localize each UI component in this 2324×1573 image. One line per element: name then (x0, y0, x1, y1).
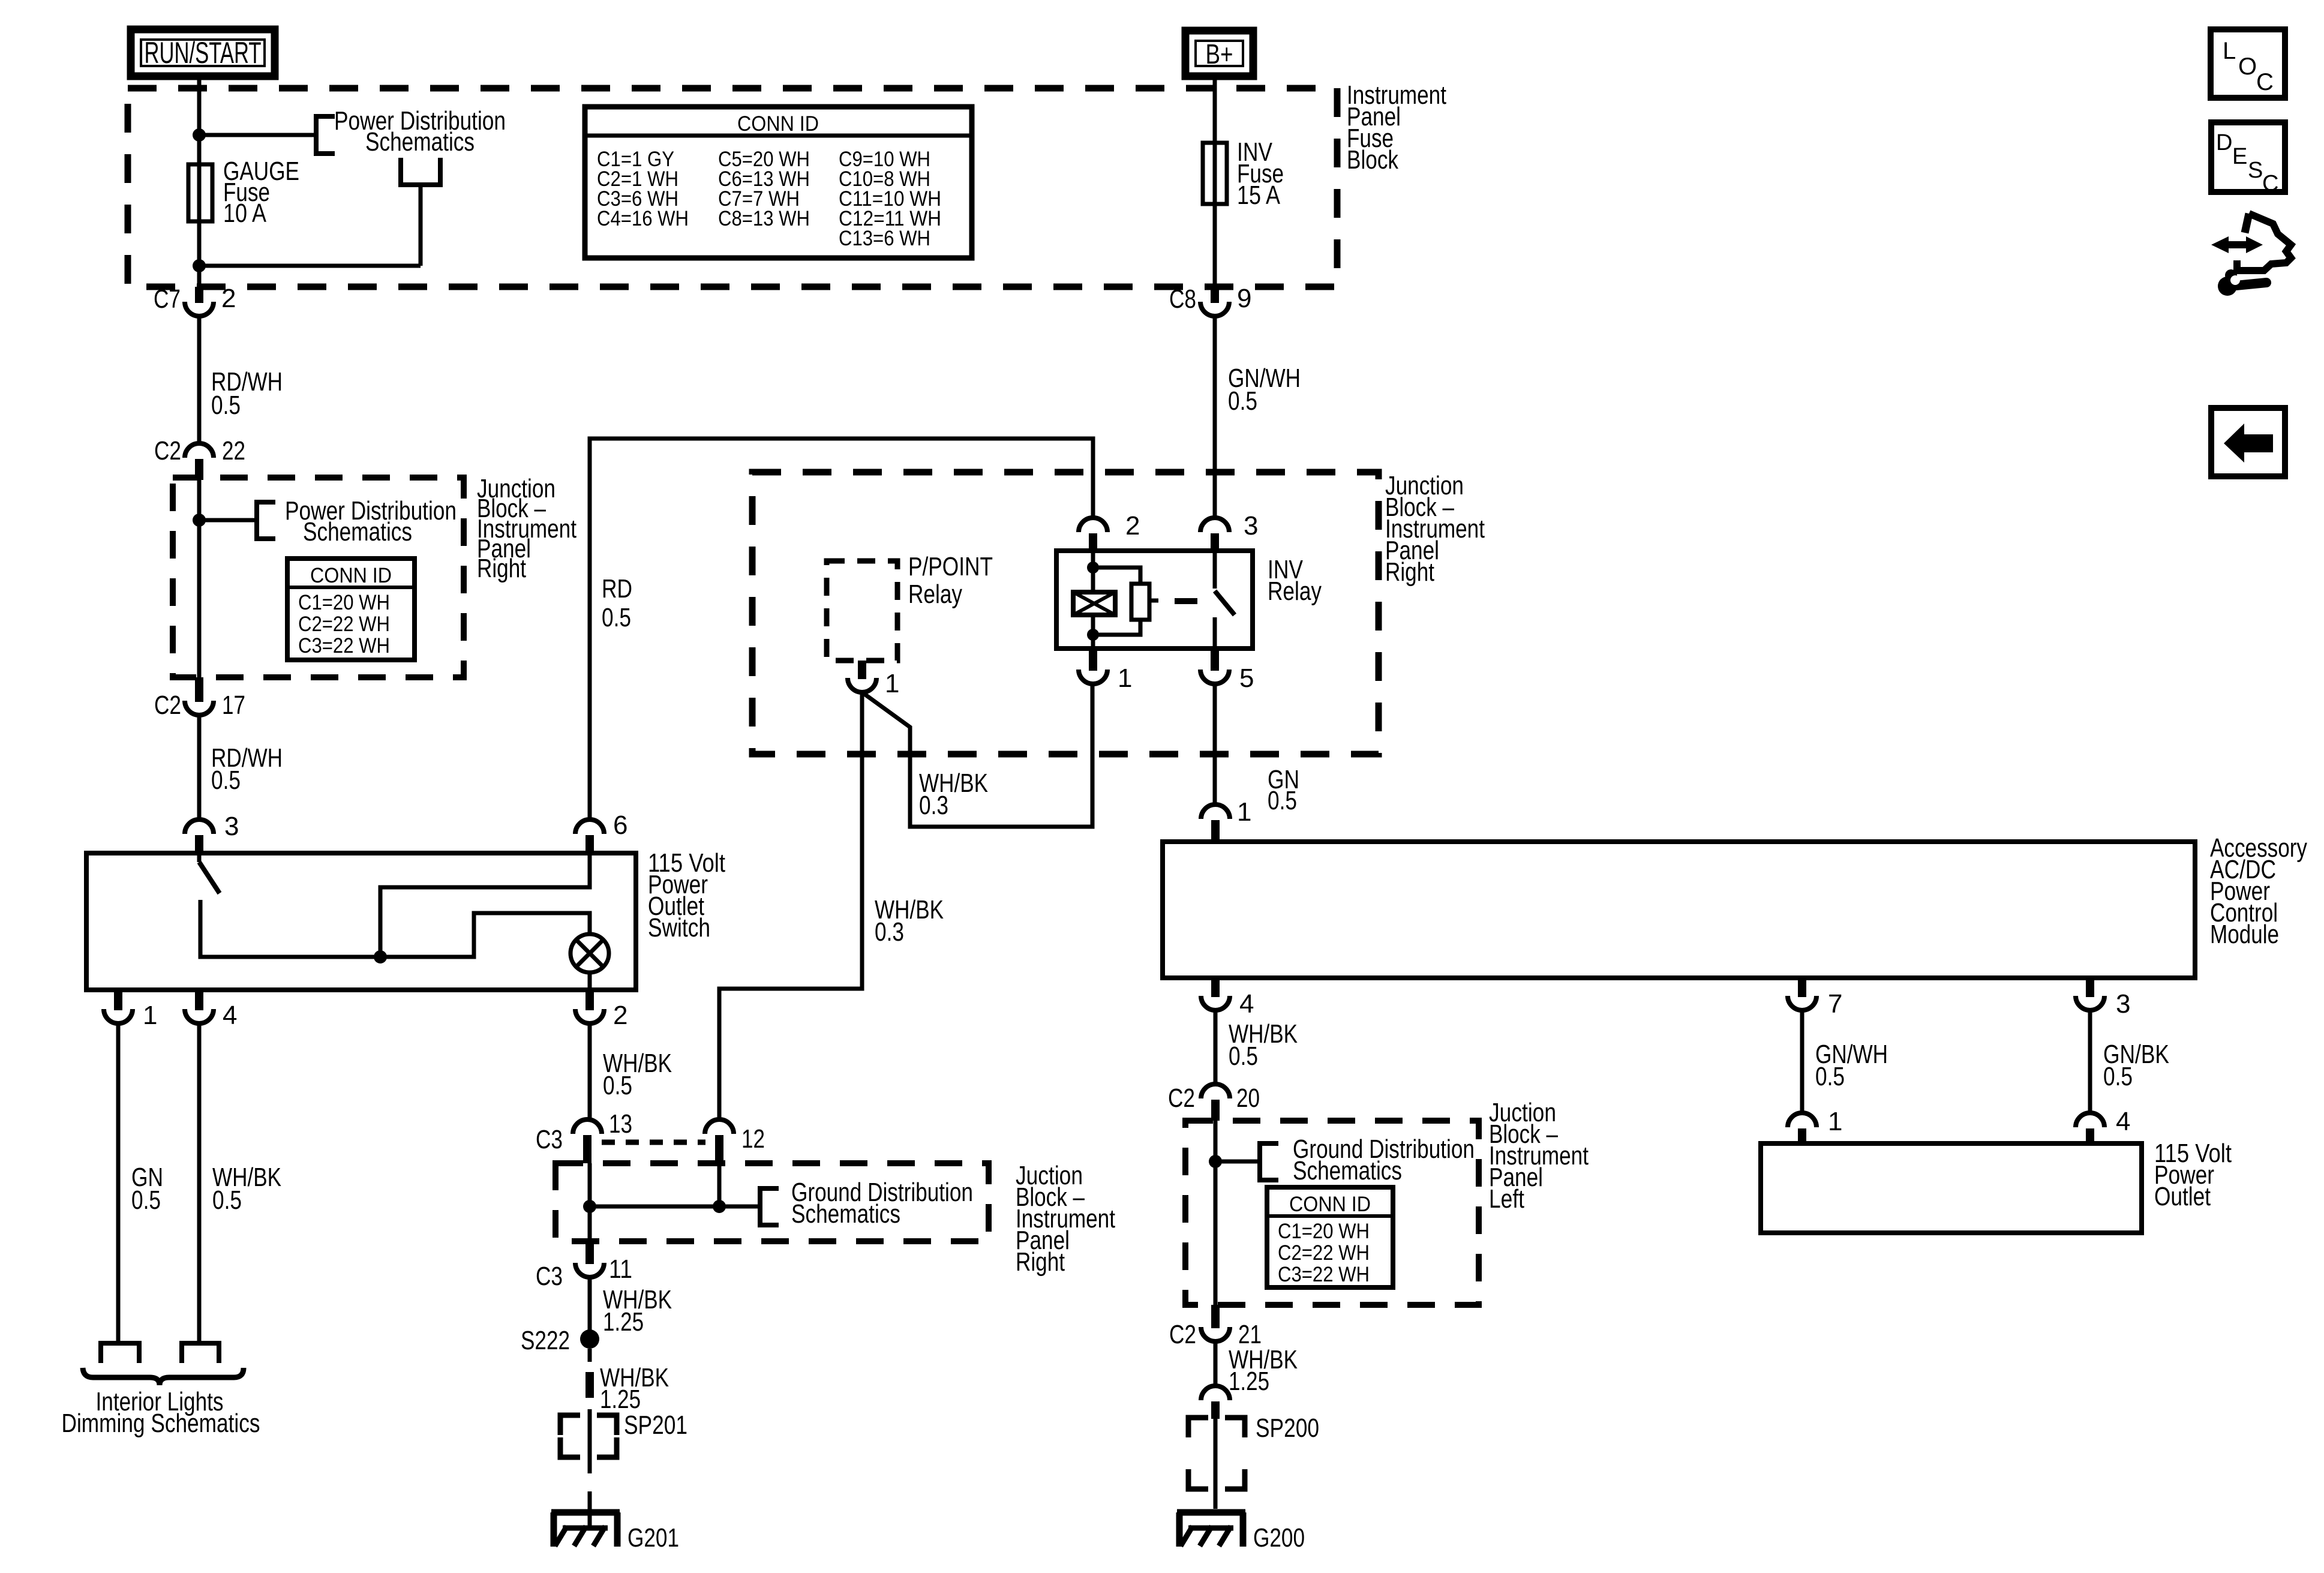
svg-text:S: S (2248, 158, 2263, 183)
svg-text:D: D (2216, 130, 2232, 155)
svg-text:1: 1 (885, 669, 899, 698)
connector C2 pin 22 (185, 443, 214, 480)
icon LOC (2211, 29, 2285, 98)
svg-text:12: 12 (741, 1124, 765, 1154)
wire node to pin 6 (380, 853, 590, 957)
svg-text:0.3: 0.3 (919, 791, 948, 820)
connector pin 4 (outlet) (2076, 1113, 2104, 1143)
svg-text:C2: C2 (154, 691, 181, 720)
tag bracket power distribution (257, 502, 275, 539)
off-page terminal (pin4 wire) (182, 1343, 219, 1363)
node junction (193, 514, 206, 527)
junction block - instrument panel right (dashed) (173, 478, 464, 677)
svg-text:3: 3 (224, 812, 239, 841)
svg-text:Right: Right (1016, 1247, 1065, 1277)
label GAUGE Fuse 10 A (223, 157, 299, 228)
junction block - instrument panel right (ground dist, dashed) (556, 1163, 989, 1241)
label Junction Block - Instrument Panel Right (477, 474, 577, 583)
svg-text:C1=20 WH: C1=20 WH (1278, 1220, 1370, 1243)
connector pin 12 (705, 1119, 734, 1163)
svg-text:SP201: SP201 (624, 1410, 687, 1440)
wire WH/BK 1.25 (C2-21 to SP200) (1214, 1341, 1218, 1386)
junction block - instrument panel right (relays, dashed) (752, 472, 1379, 754)
junction block - instrument panel left (dashed) (1185, 1121, 1479, 1305)
svg-text:RD: RD (602, 574, 632, 604)
svg-text:0.5: 0.5 (211, 766, 241, 795)
svg-text:0.5: 0.5 (1815, 1062, 1845, 1091)
svg-text:C2: C2 (154, 436, 181, 466)
svg-text:C13=6 WH: C13=6 WH (839, 227, 930, 250)
wire GN 0.5 (relay pin 5 to module pin 1) (1213, 684, 1217, 804)
connector pin 1 (P/POINT relay) (848, 661, 876, 692)
svg-text:Schematics: Schematics (365, 127, 475, 157)
ground G200 (1177, 1512, 1305, 1553)
svg-text:4: 4 (223, 1001, 237, 1030)
svg-text:6: 6 (613, 810, 627, 840)
connector pin 1 (INV relay coil-) (1079, 649, 1107, 684)
node ground dist (pin12 wire) (713, 1200, 726, 1213)
connector C3 pin 13 (573, 1119, 602, 1163)
svg-text:5: 5 (1239, 664, 1254, 693)
svg-text:C8: C8 (1169, 284, 1196, 314)
svg-text:SP200: SP200 (1256, 1413, 1319, 1443)
label Power Distribution Schematics (334, 106, 506, 157)
wire B+ to INV fuse (1213, 76, 1217, 287)
splice pack SP200 (1188, 1418, 1245, 1489)
svg-text:C2: C2 (1168, 1083, 1195, 1113)
wire RD 0.5 (pin6 up, across to relay pin 2) (590, 439, 1093, 819)
connector pin 2 of switch (575, 990, 604, 1023)
connector pin 2 (INV relay coil) (1079, 518, 1107, 551)
svg-text:CONN ID: CONN ID (1289, 1193, 1371, 1216)
svg-text:CONN ID: CONN ID (737, 112, 819, 136)
tag bracket ground distribution (760, 1188, 779, 1225)
connector pin 4 (module) (1201, 978, 1230, 1010)
wire tag to below-fuse node (199, 185, 421, 266)
connector pin 3 (INV relay switch) (1200, 518, 1229, 551)
svg-text:0.5: 0.5 (603, 1071, 632, 1100)
svg-text:C4=16 WH: C4=16 WH (597, 207, 689, 230)
connector pin 7 (module) (1788, 978, 1816, 1010)
svg-text:C1=20 WH: C1=20 WH (298, 591, 390, 614)
parallel resistor (1093, 568, 1158, 635)
svg-text:0.5: 0.5 (212, 1185, 242, 1215)
svg-text:Dimming Schematics: Dimming Schematics (62, 1409, 260, 1438)
115 Volt Power Outlet box (1761, 1143, 2142, 1233)
wire SP201 to G201 (588, 1491, 592, 1527)
wire to power distribution tag (199, 133, 316, 137)
CONN ID table (fuse block) (585, 107, 972, 258)
svg-text:0.5: 0.5 (131, 1185, 161, 1215)
CONN ID table (junction block left) (1267, 1187, 1393, 1287)
svg-text:Right: Right (477, 554, 526, 583)
wire fuse to C7 (197, 266, 202, 287)
brace interior lights (83, 1368, 244, 1385)
connector C3 pin 11 (575, 1241, 604, 1277)
svg-text:Outlet: Outlet (2154, 1182, 2211, 1211)
power tag RUN/START (131, 29, 275, 76)
svg-text:2: 2 (1125, 511, 1140, 541)
wire RUN/START to fuse block (197, 76, 202, 164)
wire node to lamp (380, 913, 590, 957)
svg-text:0.5: 0.5 (2103, 1062, 2133, 1091)
node: fuse feed junction (193, 128, 206, 142)
svg-text:C3: C3 (536, 1262, 563, 1291)
label Junction Block - Instrument Panel Right (big) (1385, 471, 1485, 587)
wire WH/BK 1.25 (C3-11 to S222) (588, 1277, 592, 1331)
label Juction Block - Instrument Panel Right (1016, 1161, 1115, 1277)
svg-text:4: 4 (2116, 1107, 2130, 1136)
tag bracket (lower, to below fuse) (401, 158, 440, 185)
svg-text:22: 22 (222, 436, 245, 466)
svg-text:S222: S222 (521, 1326, 570, 1355)
svg-text:C7: C7 (154, 284, 181, 314)
svg-text:E: E (2232, 144, 2247, 169)
svg-text:C3=22 WH: C3=22 WH (1278, 1263, 1370, 1286)
relay INV box (1056, 551, 1253, 649)
splice pack SP201 (560, 1415, 617, 1457)
connector pin 6 of switch (575, 819, 604, 853)
svg-text:0.5: 0.5 (1229, 1041, 1258, 1071)
svg-text:0.5: 0.5 (1268, 786, 1297, 815)
svg-text:CONN ID: CONN ID (310, 564, 392, 587)
svg-text:Schematics: Schematics (791, 1199, 900, 1229)
wire WH/BK 0.5 (pin4 down) (197, 1023, 202, 1343)
wire WH/BK 0.5 (switch pin 2 down) (588, 1023, 592, 1119)
wire GN/WH 0.5 (module pin 7 to outlet pin 1) (1800, 1010, 1804, 1113)
indicator lamp (571, 934, 609, 990)
svg-text:0.5: 0.5 (602, 603, 631, 632)
wire through block (1214, 1121, 1218, 1305)
svg-text:0.3: 0.3 (875, 917, 904, 947)
svg-text:1: 1 (1118, 664, 1132, 693)
svg-text:Schematics: Schematics (1293, 1156, 1402, 1185)
svg-text:G200: G200 (1253, 1523, 1305, 1553)
svg-text:2: 2 (221, 284, 236, 313)
wire GN 0.5 (pin1 down) (116, 1023, 121, 1343)
switch lower contact and wire to node (200, 900, 380, 957)
P/POINT relay (dashed box) (827, 561, 897, 661)
off-page terminal (pin1 wire) (101, 1343, 139, 1363)
svg-text:1: 1 (143, 1001, 157, 1030)
svg-text:Schematics: Schematics (303, 517, 412, 547)
svg-text:1: 1 (1237, 797, 1251, 827)
svg-text:C3=22 WH: C3=22 WH (298, 634, 390, 658)
svg-text:2: 2 (613, 1001, 627, 1030)
svg-text:3: 3 (1244, 511, 1258, 541)
wire to ground distribution tag (1215, 1160, 1260, 1164)
node (1209, 1155, 1222, 1168)
wire WH/BK 0.3 (P/POINT pin1 to INV pin1) (862, 684, 1092, 827)
connector pin 3 of switch (185, 819, 214, 853)
svg-text:C2: C2 (1169, 1320, 1196, 1349)
wire GN/WH 0.5 (C8 to relay pin 3) (1213, 316, 1217, 518)
wire WH/BK 0.5 (module pin 4 down) (1214, 1010, 1218, 1084)
svg-text:Relay: Relay (1268, 577, 1322, 606)
svg-text:G201: G201 (627, 1523, 679, 1553)
svg-text:Right: Right (1385, 557, 1434, 587)
instrument panel fuse block (dashed) (128, 88, 1337, 287)
wire through SP200 (1214, 1416, 1218, 1509)
svg-text:C2=22 WH: C2=22 WH (298, 613, 390, 636)
svg-text:1.25: 1.25 (1229, 1367, 1269, 1396)
svg-text:C2=22 WH: C2=22 WH (1278, 1241, 1370, 1265)
connector pin 5 (INV relay out) (1200, 649, 1229, 684)
svg-text:B+: B+ (1206, 38, 1233, 70)
svg-text:L: L (2223, 38, 2236, 64)
svg-text:0.5: 0.5 (1228, 386, 1257, 416)
svg-text:3: 3 (2116, 989, 2130, 1019)
relay switch contact (1215, 551, 1235, 649)
connector (SP200 feed) (1201, 1386, 1230, 1419)
svg-text:Block: Block (1347, 145, 1399, 175)
wire WH/BK 1.25 (S222 to SP201) (585, 1349, 594, 1473)
node inside switch (374, 950, 387, 963)
icon vehicle/wrench (2211, 214, 2291, 296)
connector pin 1 (module) (1201, 804, 1230, 842)
connector C2 pin 17 (185, 677, 214, 715)
wire WH/BK 0.3 (P/POINT pin1 down to pin 12) (719, 692, 862, 1119)
fuse INV 15A (1203, 143, 1227, 204)
svg-text:11: 11 (609, 1254, 632, 1284)
connector pin 1 of switch (104, 990, 133, 1023)
switch contact blade (pin 3) (199, 853, 220, 893)
svg-text:Module: Module (2210, 920, 2279, 949)
wire RD/WH 0.5 (C2-17 to switch pin 3) (197, 715, 202, 819)
icon back arrow (2211, 408, 2285, 476)
svg-text:20: 20 (1236, 1083, 1260, 1113)
svg-text:P/POINT: P/POINT (908, 552, 993, 581)
node: below fuse junction (193, 259, 206, 272)
svg-text:RUN/START: RUN/START (145, 36, 262, 70)
connector C7 pin 2 (185, 287, 214, 316)
svg-text:15 A: 15 A (1237, 181, 1281, 210)
115 Volt Power Outlet Switch box (86, 853, 636, 990)
svg-text:1.25: 1.25 (600, 1385, 641, 1414)
svg-text:1: 1 (1828, 1107, 1842, 1136)
svg-text:C: C (2262, 171, 2278, 196)
fuse GAUGE 10A (188, 135, 212, 266)
linkage dash (1175, 598, 1197, 604)
wire through junction block (197, 480, 202, 677)
svg-text:C3: C3 (536, 1125, 563, 1154)
label Juction Block - Instrument Panel Left (1489, 1098, 1589, 1214)
connector pin 1 (outlet) (1788, 1113, 1816, 1143)
wire RD/WH 0.5 (C7 to C2-22) (197, 316, 202, 443)
connector pin 4 of switch (185, 990, 214, 1023)
svg-text:13: 13 (609, 1109, 632, 1139)
power tag B+ (1185, 31, 1253, 76)
svg-text:4: 4 (1239, 989, 1254, 1019)
svg-text:Left: Left (1489, 1184, 1524, 1214)
svg-text:C8=13 WH: C8=13 WH (718, 207, 810, 230)
svg-text:O: O (2238, 53, 2257, 80)
svg-text:Relay: Relay (908, 580, 962, 609)
tag bracket ground distribution (1260, 1143, 1278, 1180)
connector C2 pin 20 (1201, 1084, 1230, 1121)
label INV Fuse 15 A (1237, 137, 1284, 210)
svg-text:C: C (2256, 69, 2274, 95)
svg-text:Switch: Switch (648, 913, 710, 942)
wires inside ground dist block (590, 1163, 760, 1241)
Accessory AC/DC Power Control Module box (1163, 842, 2195, 978)
svg-text:0.5: 0.5 (211, 391, 241, 420)
connector C2 pin 21 (1201, 1305, 1230, 1341)
splice S222 (580, 1329, 599, 1349)
connector pin 3 (module) (2076, 978, 2104, 1010)
wire to power distribution tag (199, 518, 257, 523)
dashed connector link 13-12 (602, 1140, 705, 1145)
svg-text:17: 17 (222, 691, 245, 720)
svg-text:1.25: 1.25 (603, 1307, 644, 1337)
svg-text:9: 9 (1237, 284, 1251, 313)
svg-text:7: 7 (1828, 989, 1842, 1019)
CONN ID table (junction block right) (287, 559, 415, 660)
node ground dist (C3-13 wire) (583, 1200, 596, 1213)
label Instrument Panel Fuse Block (1347, 80, 1446, 175)
ground G201 (551, 1512, 679, 1553)
wire GN/BK 0.5 (module pin 3 to outlet pin 4) (2088, 1010, 2092, 1113)
relay coil branch (1091, 551, 1095, 592)
svg-text:10 A: 10 A (223, 199, 267, 228)
connector C8 pin 9 (1200, 287, 1229, 316)
coil symbol (1073, 592, 1115, 615)
tag bracket: power distribution schematics (top) (316, 116, 335, 154)
icon DESC (2211, 122, 2285, 196)
